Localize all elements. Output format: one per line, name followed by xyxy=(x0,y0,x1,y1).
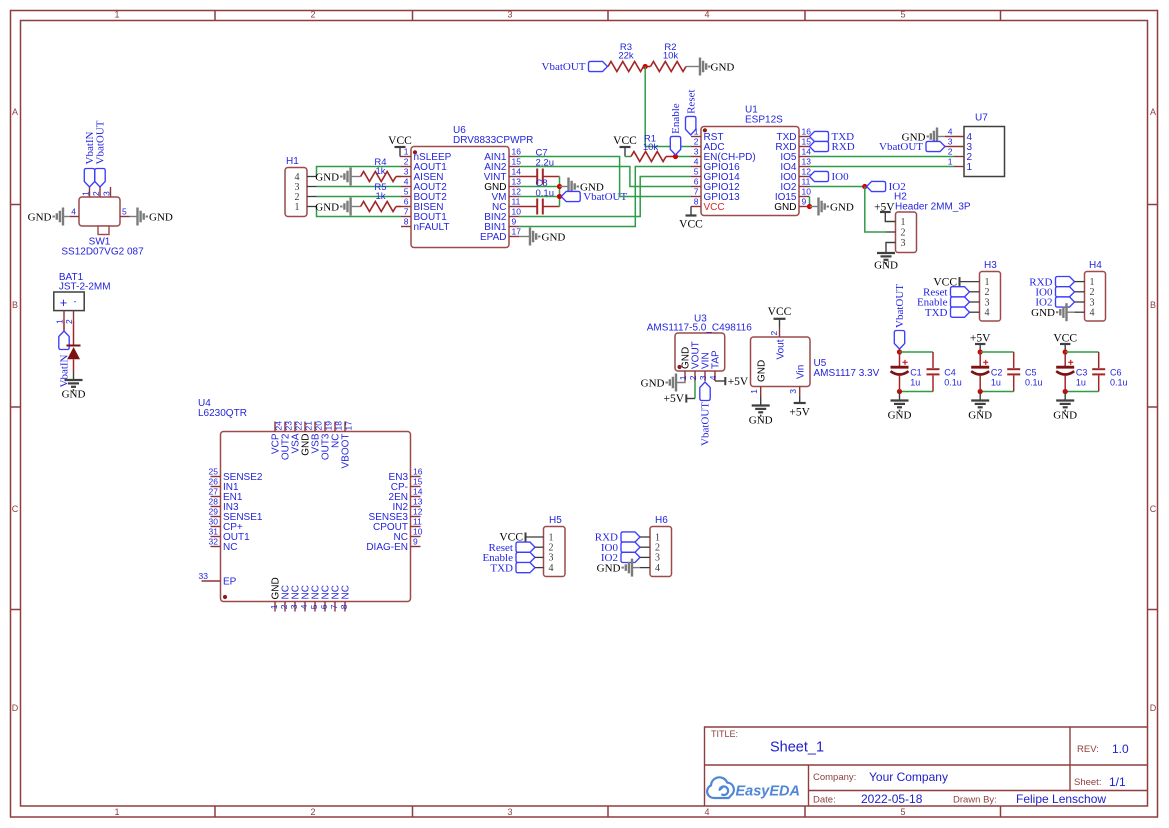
resistor R4 xyxy=(361,172,396,182)
svg-text:1: 1 xyxy=(678,375,688,380)
svg-text:10k: 10k xyxy=(643,142,659,153)
ground GND (H2 pin3) xyxy=(886,243,896,252)
pin 8 U1 xyxy=(691,206,701,208)
svg-text:16: 16 xyxy=(512,147,522,157)
pin 2 U3 xyxy=(694,371,696,381)
pin 2 SW1 xyxy=(99,187,101,197)
svg-text:8: 8 xyxy=(694,197,699,207)
resistor R2 xyxy=(651,62,687,72)
svg-text:2: 2 xyxy=(310,807,315,817)
pin 17 U4 xyxy=(344,422,346,432)
pin 2 U4 xyxy=(284,602,286,612)
svg-text:30: 30 xyxy=(209,517,219,527)
svg-text:4: 4 xyxy=(549,563,554,574)
wire cap bus xyxy=(559,177,561,207)
wire IO4 to U7.1 xyxy=(810,166,955,168)
svg-text:23: 23 xyxy=(283,421,293,431)
pin 6 U1 xyxy=(691,186,701,188)
svg-text:VbatOUT: VbatOUT xyxy=(542,61,586,73)
pin 4 U3 xyxy=(714,371,716,381)
svg-text:3: 3 xyxy=(507,10,512,20)
svg-text:AMS1117 3.3V: AMS1117 3.3V xyxy=(814,368,880,379)
pin 1 H1 xyxy=(307,206,317,208)
svg-text:Sheet_1: Sheet_1 xyxy=(770,740,824,756)
pin 16 U6 xyxy=(509,156,519,158)
junction cap-GND xyxy=(557,184,562,189)
pin 2 H1 xyxy=(307,196,317,198)
svg-text:12: 12 xyxy=(413,507,423,517)
svg-text:VbatOUT: VbatOUT xyxy=(700,402,712,446)
pin 8 U4 xyxy=(344,602,346,612)
pin 14 U1 xyxy=(799,156,810,158)
pin 19 U4 xyxy=(324,422,326,432)
svg-text:2: 2 xyxy=(694,137,699,147)
svg-text:H5: H5 xyxy=(549,515,562,526)
pin 16 U1 xyxy=(799,136,810,138)
net flag Enable (H5) xyxy=(516,552,535,562)
svg-text:7: 7 xyxy=(694,187,699,197)
svg-text:10: 10 xyxy=(802,187,812,197)
pin 2 U6 xyxy=(401,166,411,168)
svg-text:1: 1 xyxy=(114,807,119,817)
pin 14 U4 xyxy=(411,496,421,498)
svg-text:GND: GND xyxy=(641,377,665,389)
pin 9 U1 xyxy=(799,206,810,208)
wire U3 VOUT to +5V xyxy=(694,381,696,399)
pin 7 U6 xyxy=(401,216,411,218)
svg-text:13: 13 xyxy=(802,157,812,167)
svg-text:1: 1 xyxy=(901,217,906,228)
pin 5 U4 xyxy=(314,602,316,612)
svg-text:EPAD: EPAD xyxy=(480,232,507,243)
svg-text:Sheet:: Sheet: xyxy=(1074,777,1101,788)
ic U1 ESP12S xyxy=(701,127,799,216)
connector U7 xyxy=(964,127,1005,177)
junction U1 GND xyxy=(807,204,812,209)
svg-text:GND: GND xyxy=(28,211,52,223)
svg-text:6: 6 xyxy=(404,197,409,207)
pin 6 U4 xyxy=(324,602,326,612)
resistor R3 xyxy=(608,62,644,72)
pin 1 U5 GND xyxy=(760,387,762,397)
pin 32 U4 xyxy=(211,546,221,548)
svg-text:32: 32 xyxy=(209,537,219,547)
svg-text:RXD: RXD xyxy=(832,141,855,153)
svg-text:15: 15 xyxy=(512,157,522,167)
svg-text:3: 3 xyxy=(948,137,953,147)
pin 3 U3 xyxy=(704,371,706,381)
power +5V (U3 pin2) xyxy=(685,394,687,402)
pin 3 U7 xyxy=(945,146,964,148)
svg-text:2: 2 xyxy=(688,375,698,380)
svg-text:4: 4 xyxy=(694,157,699,167)
svg-text:1: 1 xyxy=(269,604,279,609)
svg-text:12: 12 xyxy=(512,187,522,197)
ground GND (caps) xyxy=(1064,392,1066,400)
pin 21 U4 xyxy=(304,422,306,432)
pin 2 U1 xyxy=(691,146,701,148)
svg-text:4: 4 xyxy=(985,308,990,319)
wire H1.4 to AOUT1 xyxy=(317,167,402,177)
svg-text:EP: EP xyxy=(223,577,237,588)
net flag Reset (H5) xyxy=(516,542,535,552)
svg-text:7: 7 xyxy=(329,604,339,609)
svg-text:1: 1 xyxy=(967,162,973,173)
svg-text:7: 7 xyxy=(404,207,409,217)
svg-text:2: 2 xyxy=(310,10,315,20)
svg-text:VCC: VCC xyxy=(613,135,637,147)
pin 14 U6 xyxy=(509,176,519,178)
wire H1.2 to BOUT2 xyxy=(317,196,402,198)
pin 13 U4 xyxy=(411,506,421,508)
wire R1 to U1 EN xyxy=(674,156,691,158)
svg-text:3: 3 xyxy=(507,807,512,817)
svg-text:TXD: TXD xyxy=(925,307,948,319)
svg-text:31: 31 xyxy=(209,527,219,537)
svg-text:20: 20 xyxy=(313,421,323,431)
svg-text:1: 1 xyxy=(694,127,699,137)
pin 11 U4 xyxy=(411,526,421,528)
svg-text:Reset: Reset xyxy=(685,89,697,113)
svg-text:IO0: IO0 xyxy=(832,171,850,183)
svg-text:10k: 10k xyxy=(663,51,679,62)
svg-text:28: 28 xyxy=(209,497,219,507)
svg-text:4: 4 xyxy=(1090,308,1095,319)
svg-text:26: 26 xyxy=(209,477,219,487)
svg-text:16: 16 xyxy=(802,127,812,137)
svg-text:VBOOT: VBOOT xyxy=(341,434,352,469)
svg-text:U7: U7 xyxy=(975,113,988,124)
svg-text:Vout: Vout xyxy=(776,339,787,359)
net flag IO0 xyxy=(810,171,829,181)
wire U1 IO2 to junction xyxy=(810,186,865,188)
svg-text:VCC: VCC xyxy=(679,219,703,231)
ic U5 AMS1117 xyxy=(751,337,811,387)
svg-text:L6230QTR: L6230QTR xyxy=(198,408,247,419)
pin 1 U1 xyxy=(691,136,701,138)
net flag VbatIN (BAT1) xyxy=(63,321,65,331)
net flag Enable xyxy=(670,136,680,155)
svg-text:1: 1 xyxy=(404,147,409,157)
net flag IO0 (H6) xyxy=(621,542,640,552)
svg-text:+5V: +5V xyxy=(663,393,684,405)
svg-text:4: 4 xyxy=(704,10,709,20)
svg-text:1.0: 1.0 xyxy=(1112,742,1129,756)
svg-text:AMS1117-5.0_C498116: AMS1117-5.0_C498116 xyxy=(647,323,753,334)
svg-text:GND: GND xyxy=(1053,410,1077,422)
svg-text:11: 11 xyxy=(413,517,422,527)
svg-text:4: 4 xyxy=(299,604,309,609)
net flag IO2 xyxy=(867,181,886,191)
svg-text:12: 12 xyxy=(802,167,812,177)
wire cap top xyxy=(1065,351,1099,353)
svg-text:2: 2 xyxy=(769,331,779,336)
pin 4 U6 xyxy=(401,186,411,188)
svg-text:TAP: TAP xyxy=(711,350,722,369)
capacitor C1 xyxy=(899,352,901,366)
pin 28 U4 xyxy=(211,506,221,508)
pin 13 U6 xyxy=(509,186,519,188)
svg-text:4: 4 xyxy=(71,207,76,217)
svg-text:8: 8 xyxy=(404,217,409,227)
pin 2 U7 xyxy=(954,156,964,158)
svg-text:27: 27 xyxy=(209,487,219,497)
svg-text:1: 1 xyxy=(749,389,759,394)
svg-text:GND: GND xyxy=(597,562,621,574)
ground GND (U5 pin1) xyxy=(760,397,762,405)
svg-text:VbatOUT: VbatOUT xyxy=(95,120,107,164)
pin 33 U4 EP xyxy=(202,580,221,582)
header H6 xyxy=(650,527,672,577)
net flag IO2 (H4) xyxy=(1056,297,1075,307)
svg-text:21: 21 xyxy=(303,421,313,431)
net flag RXD (H4) xyxy=(1056,277,1075,287)
ground GND (SW1 pin4) xyxy=(64,216,70,218)
junction IO2 xyxy=(862,184,867,189)
svg-text:NC: NC xyxy=(341,585,352,599)
ic U3 AMS1117-5.0 xyxy=(675,333,725,371)
svg-text:2022-05-18: 2022-05-18 xyxy=(861,792,923,806)
wire IO15 to GND node xyxy=(809,197,811,207)
svg-text:GND: GND xyxy=(149,211,173,223)
junction EN xyxy=(673,154,678,159)
svg-text:4: 4 xyxy=(404,177,409,187)
pin 9 U6 xyxy=(509,226,519,228)
svg-text:B: B xyxy=(1150,300,1156,310)
ground GND (U6 EPAD) xyxy=(519,236,529,238)
pin 1 U6 xyxy=(400,156,411,158)
svg-text:GND: GND xyxy=(830,201,854,213)
svg-text:33: 33 xyxy=(199,571,209,581)
junction cap top xyxy=(897,349,902,354)
power VCC (R1) xyxy=(624,147,626,157)
svg-text:29: 29 xyxy=(209,507,219,517)
svg-text:Header 2MM_3P: Header 2MM_3P xyxy=(895,202,971,213)
pin 3 SW1 xyxy=(110,187,112,197)
ground GND (caps) xyxy=(899,392,901,400)
svg-text:3: 3 xyxy=(404,167,409,177)
wire cap top xyxy=(900,351,934,353)
svg-text:3: 3 xyxy=(901,238,906,249)
wire cap bottom xyxy=(900,391,934,393)
svg-text:VbatOUT: VbatOUT xyxy=(894,284,906,328)
wire cap bottom xyxy=(980,391,1014,393)
svg-text:Company:: Company: xyxy=(813,772,856,783)
wire U6 GND pin xyxy=(519,186,560,188)
pin 5 U1 xyxy=(691,176,701,178)
resistor R5 xyxy=(361,202,396,212)
svg-text:0.1u: 0.1u xyxy=(1110,378,1128,388)
svg-text:ESP12S: ESP12S xyxy=(745,115,783,126)
svg-text:22k: 22k xyxy=(618,51,634,62)
capacitor C8 xyxy=(519,206,537,208)
wire AIN2-GPIO12 xyxy=(519,167,691,187)
net flag TXD xyxy=(810,131,829,141)
svg-text:17: 17 xyxy=(512,227,522,237)
pin 1 U4 xyxy=(274,602,276,612)
svg-text:15: 15 xyxy=(802,137,812,147)
pin 4 U4 xyxy=(304,602,306,612)
net flag Reset (H3) xyxy=(951,287,970,297)
svg-text:GND: GND xyxy=(542,231,566,243)
svg-text:GND: GND xyxy=(888,410,912,422)
svg-text:DRV8833CPWPR: DRV8833CPWPR xyxy=(453,135,533,146)
svg-text:0.1u: 0.1u xyxy=(944,378,962,388)
svg-text:C: C xyxy=(12,504,19,514)
svg-text:9: 9 xyxy=(802,197,807,207)
svg-text:5: 5 xyxy=(900,10,905,20)
svg-text:DIAG-EN: DIAG-EN xyxy=(366,542,408,553)
svg-text:D: D xyxy=(1150,703,1157,713)
pin 3 U6 xyxy=(401,176,411,178)
pin 1 BAT1 xyxy=(63,311,65,321)
ic U6 DRV8833CPWPR xyxy=(411,147,509,248)
svg-text:EasyEDA: EasyEDA xyxy=(736,784,800,800)
svg-text:22: 22 xyxy=(293,421,303,431)
pin 16 U4 xyxy=(411,476,421,478)
svg-text:+: + xyxy=(60,295,68,310)
power VCC (U5 pin2) xyxy=(779,319,781,327)
junction cap bottom xyxy=(978,389,983,394)
svg-text:3: 3 xyxy=(101,191,111,196)
ic U4 L6230QTR xyxy=(221,432,411,602)
svg-text:3: 3 xyxy=(694,147,699,157)
capacitor C4 xyxy=(932,352,934,368)
svg-text:REV:: REV: xyxy=(1077,744,1099,755)
net flag TXD (H3) xyxy=(951,307,970,317)
svg-text:8: 8 xyxy=(339,604,349,609)
pin 29 U4 xyxy=(211,516,221,518)
pin 10 U1 xyxy=(799,196,810,198)
svg-text:17: 17 xyxy=(343,421,353,431)
wire U6 VM pin xyxy=(519,196,560,198)
svg-text:VCC: VCC xyxy=(388,135,412,147)
svg-text:H1: H1 xyxy=(286,156,299,167)
pin 26 U4 xyxy=(211,486,221,488)
svg-text:15: 15 xyxy=(413,477,423,487)
header H2 xyxy=(896,212,917,253)
svg-text:C: C xyxy=(1150,504,1157,514)
svg-text:5: 5 xyxy=(309,604,319,609)
svg-text:-: - xyxy=(74,297,77,307)
diode xyxy=(67,345,81,347)
svg-text:A: A xyxy=(1150,107,1156,117)
pin 10 U6 xyxy=(509,216,519,218)
svg-text:1: 1 xyxy=(948,157,953,167)
svg-text:GND: GND xyxy=(1031,307,1055,319)
svg-text:+5V: +5V xyxy=(728,376,749,388)
pin 13 U1 xyxy=(799,166,810,168)
capacitor C6 xyxy=(1098,352,1100,368)
svg-text:GND: GND xyxy=(62,389,86,401)
svg-text:5: 5 xyxy=(404,187,409,197)
svg-text:GND: GND xyxy=(774,202,796,213)
wire H1.1 to BOUT1 xyxy=(317,207,402,217)
junction cap bottom xyxy=(897,389,902,394)
svg-text:NC: NC xyxy=(223,542,237,553)
net flag TXD (H5) xyxy=(516,563,535,573)
pin 7 U1 xyxy=(691,196,701,198)
svg-text:1u: 1u xyxy=(1076,378,1086,388)
ground GND (U7 pin4) xyxy=(938,136,945,138)
svg-text:GND: GND xyxy=(315,171,339,183)
svg-text:14: 14 xyxy=(512,167,522,177)
ground GND (U3 pin1) xyxy=(678,381,686,383)
svg-text:13: 13 xyxy=(512,177,522,187)
net flag Reset xyxy=(686,116,696,134)
svg-text:Enable: Enable xyxy=(670,103,682,134)
svg-text:H3: H3 xyxy=(984,260,997,271)
svg-text:9: 9 xyxy=(413,537,418,547)
svg-text:JST-2-2MM: JST-2-2MM xyxy=(59,282,111,293)
svg-text:10: 10 xyxy=(512,207,522,217)
pin 1 SW1 xyxy=(89,187,91,197)
power VCC (U1 pin8) xyxy=(690,207,692,216)
junction cap top xyxy=(1063,349,1068,354)
svg-text:2: 2 xyxy=(91,191,101,196)
svg-text:1: 1 xyxy=(55,319,65,324)
net flag IO2 (H6) xyxy=(621,552,640,562)
net flag VbatOUT xyxy=(589,61,608,71)
svg-text:GND: GND xyxy=(315,201,339,213)
svg-text:4: 4 xyxy=(704,807,709,817)
svg-text:VCC: VCC xyxy=(1053,333,1077,345)
svg-text:0.1u: 0.1u xyxy=(536,188,555,199)
svg-text:11: 11 xyxy=(802,177,811,187)
power +5V (U3 pin4) xyxy=(715,380,725,382)
pin 3 U1 xyxy=(691,156,701,158)
svg-text:TXD: TXD xyxy=(490,562,513,574)
capacitor C3 xyxy=(1064,352,1066,366)
svg-text:VCC: VCC xyxy=(768,306,792,318)
svg-text:Date:: Date: xyxy=(813,795,836,806)
svg-text:C4: C4 xyxy=(944,368,956,378)
ground GND (R5) xyxy=(352,206,361,208)
pin 24 U4 xyxy=(274,422,276,432)
pin 17 U6 EPAD xyxy=(509,236,519,238)
svg-text:4: 4 xyxy=(655,563,660,574)
svg-text:1u: 1u xyxy=(910,378,920,388)
pin 5 U6 xyxy=(401,196,411,198)
svg-text:16: 16 xyxy=(413,467,423,477)
pin 4 SW1 xyxy=(70,216,79,218)
svg-text:C5: C5 xyxy=(1025,368,1037,378)
wire divider to U1 ADC xyxy=(645,67,691,147)
svg-text:2: 2 xyxy=(279,604,289,609)
svg-text:GND: GND xyxy=(874,260,898,272)
wire BAT1.2 to diode xyxy=(73,321,75,346)
ground GND (R2) xyxy=(686,66,699,68)
svg-text:VCC: VCC xyxy=(704,202,725,213)
pin 15 U1 xyxy=(799,146,810,148)
svg-text:2: 2 xyxy=(901,227,906,238)
net flag VbatOUT (SW1) xyxy=(95,169,105,188)
power VCC (U6 pin1) xyxy=(399,147,401,157)
pin 3 H1 xyxy=(307,186,317,188)
ground GND (H4 pin4) xyxy=(1068,311,1075,313)
svg-text:Felipe Lenschow: Felipe Lenschow xyxy=(1016,792,1106,806)
header H4 xyxy=(1085,272,1106,322)
capacitor C7 xyxy=(519,176,537,178)
header H5 xyxy=(544,527,566,577)
pin 31 U4 xyxy=(211,536,221,538)
wire IO2 to H2.2 xyxy=(865,187,886,233)
wire H1.3 to AOUT2 xyxy=(317,186,402,188)
ground GND (U1 pin9) xyxy=(810,206,818,208)
svg-text:C6: C6 xyxy=(1110,368,1122,378)
pin 3 U5 Vin xyxy=(799,387,801,397)
net flag VbatOUT (U7 pin3) xyxy=(926,141,945,151)
